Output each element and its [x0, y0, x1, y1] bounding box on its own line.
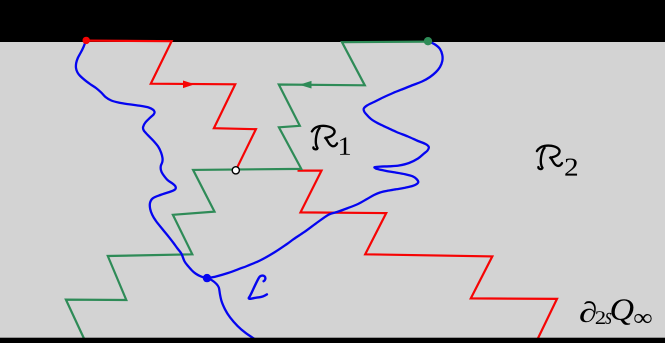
label script L for blue lowest curve: [249, 276, 267, 299]
red staircase path from red dot to white junction dot: [86, 41, 256, 171]
blue wavy curve from green dot to blue junction dot: [207, 41, 443, 278]
blue curve L continuation to bottom boundary: [207, 278, 259, 342]
bottom boundary black bar: [0, 338, 665, 343]
green arrowhead pointing left on green staircase: [299, 81, 311, 89]
boundary label partial derivative symbol: [580, 301, 596, 322]
label R1 calligraphic R: [312, 126, 337, 150]
boundary label Q: [611, 299, 633, 325]
red staircase path lower right to bottom boundary: [298, 171, 558, 341]
label R2 subscript 2: [565, 159, 577, 176]
boundary label subscript 2: [596, 311, 605, 324]
label R2 calligraphic R: [537, 146, 562, 170]
blue junction dot: [203, 274, 211, 282]
boundary label infinity subscript: [634, 314, 651, 323]
blue wavy curve from red dot to blue junction dot: [76, 41, 207, 279]
boundary label subscript s: [605, 313, 611, 324]
white junction dot on green path: [232, 167, 239, 174]
label R1 subscript 1: [340, 137, 350, 154]
green staircase path from green dot to bottom left: [66, 42, 428, 341]
top boundary black bar: [0, 0, 665, 42]
red arrowhead pointing right on red staircase: [183, 81, 195, 89]
green start dot: [424, 37, 432, 45]
red start dot: [83, 37, 90, 44]
